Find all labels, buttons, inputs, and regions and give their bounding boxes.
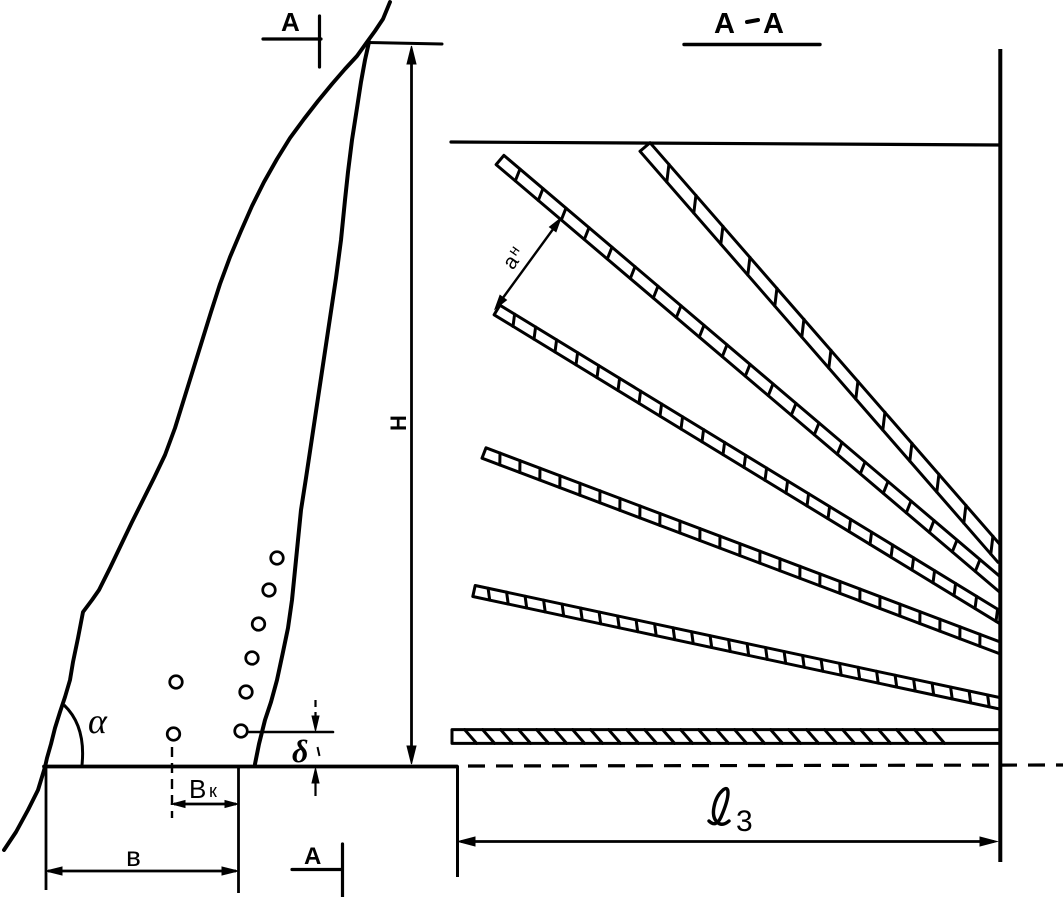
dimension Bk xyxy=(174,803,236,806)
svg-text:δ: δ xyxy=(292,733,308,769)
drill hole band 4 xyxy=(482,448,1005,654)
dimension l3 xyxy=(461,840,994,843)
svg-text:A: A xyxy=(281,7,300,37)
boreholes left row xyxy=(170,676,183,689)
svg-text:А: А xyxy=(714,8,735,40)
svg-text:3: 3 xyxy=(736,805,753,838)
bench top line xyxy=(367,43,442,45)
dimension a_n line xyxy=(497,221,559,306)
drill hole band 3 xyxy=(494,305,1006,624)
drill hole band 6 horizontal xyxy=(452,730,1003,744)
title underline xyxy=(684,43,820,46)
boreholes right row xyxy=(271,552,284,565)
section marker A top xyxy=(263,16,321,67)
dashed floor line xyxy=(468,765,1063,766)
extension line x=46 xyxy=(45,768,48,890)
ore contact curve xyxy=(255,42,369,764)
dimension H vertical line xyxy=(410,50,413,760)
svg-text:A: A xyxy=(304,843,321,870)
svg-text:к: к xyxy=(209,781,217,801)
ground line xyxy=(44,765,457,769)
l3 left extension xyxy=(456,766,459,877)
small tick right of delta xyxy=(318,747,320,756)
angle alpha arc xyxy=(64,705,83,765)
svg-text:В: В xyxy=(189,774,206,804)
drill hole band 2 xyxy=(496,155,1007,591)
drill hole band 1 xyxy=(640,143,1008,563)
svg-text:H: H xyxy=(386,415,411,431)
extension line x=172 dashed xyxy=(171,747,173,818)
slope face edge thick vertical xyxy=(998,49,1002,862)
slope face curve xyxy=(4,2,390,850)
delta dimension lower arrow xyxy=(314,781,316,796)
label l3 script ell xyxy=(709,789,729,825)
section marker A bottom xyxy=(292,844,343,897)
svg-text:α: α xyxy=(88,701,108,741)
section top line xyxy=(451,142,1000,145)
label a_n xyxy=(497,242,529,273)
svg-text:А: А xyxy=(763,8,784,40)
delta dimension upper arrow xyxy=(314,700,316,717)
drill hole band 5 xyxy=(473,586,1004,710)
delta reference line xyxy=(249,731,333,734)
dimension B xyxy=(48,870,236,873)
extension line x=238.5 xyxy=(237,768,240,893)
svg-text:в: в xyxy=(126,841,141,872)
